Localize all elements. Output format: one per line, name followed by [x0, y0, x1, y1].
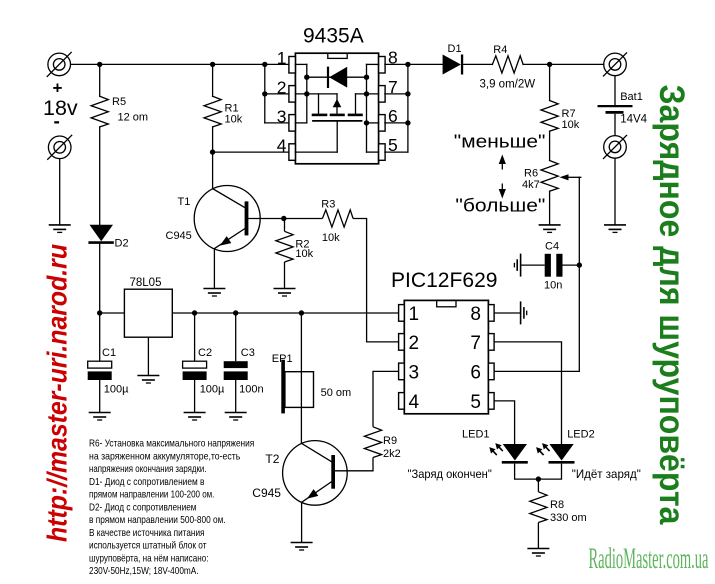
svg-text:4: 4: [409, 392, 420, 413]
wire D1 cathode to R4: [463, 63, 492, 65]
U1 mosfet substrate stub: [336, 94, 338, 114]
wire pin2 of 9435A: [265, 93, 289, 95]
svg-text:C4: C4: [545, 241, 559, 253]
resistor R1: [204, 96, 221, 127]
wire U2 pin5 to LED1: [494, 401, 514, 444]
U2 pin 4 tab: [399, 393, 405, 410]
svg-text:http://master-uri.narod.ru: http://master-uri.narod.ru: [42, 244, 73, 542]
wire C3 to ground: [235, 380, 237, 413]
svg-text:напряжения окончания зарядки.: напряжения окончания зарядки.: [89, 463, 207, 475]
U1 pin 3 tab: [289, 115, 296, 132]
wire C2 to ground: [194, 380, 196, 413]
U1 pin 4 tab: [289, 144, 296, 161]
svg-text:R9: R9: [383, 435, 397, 447]
ground: [604, 225, 626, 233]
ground: [203, 289, 225, 297]
U1 mosfet drain stub: [355, 94, 357, 114]
wire C2 top: [194, 313, 196, 361]
battery Bat1 short plate: [606, 111, 624, 114]
T2 emitter arrow: [307, 489, 318, 499]
svg-text:4k7: 4k7: [522, 179, 540, 191]
wire R2 top: [284, 219, 286, 232]
wire R4 to Bat1: [523, 63, 604, 65]
U1 internal pin7 lead: [356, 93, 379, 95]
wire T1 base node: [248, 218, 322, 220]
wire R1 top: [212, 64, 214, 96]
wire R6 wiper: [568, 176, 581, 178]
svg-text:используется штатный блок от: используется штатный блок от: [89, 540, 207, 552]
svg-text:C945: C945: [252, 486, 281, 500]
wire C4 right to node: [563, 264, 580, 266]
resistor R8: [530, 492, 547, 523]
svg-text:прямом направлении 100-200 ом.: прямом направлении 100-200 ом.: [89, 489, 214, 501]
svg-text:C945: C945: [166, 230, 192, 242]
wire Bat1 plate to terminal bottom: [614, 114, 616, 136]
svg-text:6: 6: [388, 106, 398, 126]
U1 pin numbers: [277, 48, 398, 156]
wire pin3 of 9435A: [265, 122, 289, 124]
svg-text:1: 1: [277, 48, 287, 68]
battery Bat1 terminal top: [603, 52, 627, 76]
wire EP1 through to T2 collector: [300, 313, 302, 443]
svg-text:4: 4: [277, 136, 287, 156]
svg-text:3: 3: [277, 106, 287, 126]
LED1 arrows: [492, 446, 503, 455]
svg-text:C2: C2: [198, 347, 212, 359]
resistor R7: [541, 101, 558, 132]
wire R2 to ground: [284, 262, 286, 289]
chip U2 PIC12F629 body: [404, 300, 488, 413]
resistor R4: [492, 56, 523, 73]
U2 pin 5 tab: [488, 393, 494, 410]
U2 notch: [437, 300, 456, 306]
potentiometer R6: [541, 161, 558, 192]
svg-text:"меньше": "меньше": [454, 131, 546, 151]
svg-text:230V-50Hz,15W; 18V-400mA.: 230V-50Hz,15W; 18V-400mA.: [89, 565, 199, 577]
arrow menshe (up): [501, 161, 503, 170]
U1 mosfet gate plate: [313, 120, 362, 122]
T1 base bar: [245, 201, 249, 235]
svg-text:PIC12F629: PIC12F629: [391, 269, 498, 292]
svg-text:R6: R6: [524, 168, 538, 180]
svg-text:D2: D2: [115, 238, 129, 250]
wire T1 collector: [212, 152, 214, 189]
svg-text:2: 2: [409, 333, 420, 354]
wire pin5 to bus: [385, 151, 408, 153]
svg-text:10n: 10n: [544, 280, 562, 292]
wire R8 to ground: [537, 523, 539, 549]
svg-text:LED2: LED2: [567, 429, 595, 441]
svg-text:C3: C3: [241, 347, 255, 359]
svg-text:10k: 10k: [225, 113, 243, 125]
svg-text:10k: 10k: [562, 119, 580, 131]
resistor R5: [91, 96, 108, 127]
svg-text:10k: 10k: [322, 232, 340, 244]
svg-text:RadioMaster.com.ua: RadioMaster.com.ua: [589, 542, 709, 575]
U1 internal body diode triangle: [329, 67, 347, 88]
U2 pin 8 tab: [488, 305, 494, 322]
svg-text:2k2: 2k2: [383, 448, 401, 460]
svg-text:D2- Диод с сопротивлением: D2- Диод с сопротивлением: [89, 501, 197, 513]
wire node to R8: [537, 479, 539, 492]
ground: [225, 413, 247, 421]
wire pin7 to bus: [385, 93, 408, 95]
svg-text:R6- Установка максимального на: R6- Установка максимального напряжения: [89, 438, 254, 450]
wire C1 to ground: [99, 380, 101, 413]
U1 pin 2 tab: [289, 86, 296, 103]
svg-text:-: -: [54, 112, 60, 133]
svg-text:"Идёт заряд": "Идёт заряд": [572, 467, 641, 481]
svg-text:EP1: EP1: [272, 353, 293, 365]
LED2 arrows: [539, 446, 550, 455]
wire XS2 to ground: [59, 159, 61, 225]
svg-text:Зарядное для шуруповёрта: Зарядное для шуруповёрта: [652, 85, 691, 525]
wire C3 top: [235, 313, 237, 361]
ground rotated left of C4: [514, 254, 520, 277]
terminal XS1 (+): [47, 52, 71, 76]
U1 pin 5 tab: [379, 144, 386, 161]
U1 internal junction dots: [304, 75, 369, 126]
svg-text:на заряженном аккумуляторе,то-: на заряженном аккумуляторе,то-есть: [89, 450, 241, 462]
U1 pin 1 tab: [289, 57, 296, 74]
svg-text:R3: R3: [321, 198, 335, 210]
svg-text:D1: D1: [448, 43, 462, 55]
wire D2 to node 5Vin: [99, 243, 101, 361]
svg-text:100µ: 100µ: [200, 384, 225, 396]
wire R5 top: [99, 64, 101, 96]
wire top rail +18V: [71, 63, 289, 65]
LED1: [502, 444, 528, 462]
diode D2: [88, 225, 113, 243]
svg-text:D1- Диод с сопротивлением в: D1- Диод с сопротивлением в: [89, 476, 205, 488]
svg-text:+: +: [53, 79, 63, 98]
U2 pin 2 tab: [399, 334, 405, 351]
svg-text:9435A: 9435A: [303, 25, 364, 48]
U1 mosfet channel segment 1: [313, 114, 326, 117]
wire terminal to Bat1 plate: [614, 76, 616, 105]
transistor T2: [283, 441, 348, 506]
ground: [137, 376, 159, 384]
wire LED1 cathode to node: [515, 464, 562, 480]
svg-text:"Заряд окончен": "Заряд окончен": [408, 467, 492, 481]
svg-text:T2: T2: [265, 452, 279, 466]
U2 pin 7 tab: [488, 334, 494, 351]
resistor R2: [276, 231, 293, 262]
wire 5V rail: [172, 312, 398, 314]
svg-text:50 om: 50 om: [321, 387, 352, 399]
wire C4 left to ground: [521, 264, 545, 266]
capacitor C3: [224, 361, 248, 380]
wire R7 to R6: [549, 131, 551, 160]
ground: [89, 413, 111, 421]
svg-text:R8: R8: [550, 499, 564, 511]
wire 78L05 to ground: [147, 337, 149, 375]
svg-text:В качестве источника питания: В качестве источника питания: [89, 527, 205, 539]
U1 internal body diode bar: [327, 67, 329, 88]
svg-text:7: 7: [470, 333, 481, 354]
svg-text:8: 8: [470, 304, 481, 325]
wire U2 pin7 to LED2: [494, 342, 561, 444]
U1 internal diode wire: [307, 76, 367, 78]
svg-text:100µ: 100µ: [104, 384, 129, 396]
U1 mosfet channel segment 3: [349, 114, 362, 117]
svg-text:2: 2: [277, 77, 287, 97]
ground rotated right of pin8: [521, 301, 527, 324]
LED2: [549, 444, 575, 462]
svg-text:7: 7: [388, 77, 398, 97]
T2 base bar: [331, 455, 335, 489]
wire 9435A right pins bus vertical: [407, 64, 409, 152]
svg-text:12 om: 12 om: [118, 112, 149, 124]
svg-text:100n: 100n: [239, 384, 263, 396]
wire R9 to PIC pin3: [373, 371, 399, 426]
wire node to R7: [549, 64, 551, 100]
ground: [527, 549, 549, 557]
ground: [274, 289, 296, 297]
op-amp U1 9435A body: [295, 53, 378, 164]
ground: [291, 543, 313, 551]
svg-text:5: 5: [388, 135, 398, 155]
wire T2 emitter to ground: [301, 502, 303, 542]
svg-text:6: 6: [470, 362, 481, 383]
wire pin8 to D1: [385, 63, 443, 65]
svg-text:18v: 18v: [43, 96, 78, 120]
transistor T1: [194, 186, 260, 252]
svg-text:Bat1: Bat1: [620, 91, 643, 103]
resistor R3: [322, 210, 353, 227]
svg-text:5: 5: [470, 392, 481, 413]
svg-text:8: 8: [388, 48, 398, 68]
capacitor C4: [545, 254, 563, 277]
wire battery to ground: [614, 158, 616, 225]
wire U2 pin6 to C4 node: [494, 370, 579, 372]
svg-text:1: 1: [409, 304, 420, 325]
U1 internal pin6 lead: [367, 122, 379, 124]
U1 internal pin3 lead: [295, 122, 306, 124]
wire T2 base to R9: [335, 458, 373, 471]
svg-text:78L05: 78L05: [130, 277, 162, 289]
svg-text:3,9 om/2W: 3,9 om/2W: [480, 79, 536, 91]
svg-text:C1: C1: [102, 347, 116, 359]
svg-text:10k: 10k: [295, 248, 313, 260]
wire 5V input: [100, 312, 125, 314]
U1 mosfet source stub: [318, 94, 320, 114]
capacitor C1: [88, 361, 112, 380]
U2 pin 1 tab: [399, 305, 405, 322]
wire R5 to D2: [99, 127, 101, 225]
svg-text:в прямом направлении 500-800 о: в прямом направлении 500-800 ом.: [89, 514, 226, 526]
notes text block: [89, 438, 254, 578]
U1 notch: [328, 53, 347, 58]
T1 emitter arrow: [220, 236, 232, 246]
U2 pin 3 tab: [399, 363, 405, 380]
svg-text:T1: T1: [178, 196, 191, 208]
wire U2 pin8 to supply cell: [494, 312, 520, 314]
capacitor C2: [183, 361, 207, 380]
regulator 78L05: [124, 289, 172, 337]
svg-text:R4: R4: [493, 44, 507, 56]
U1 pin 8 tab: [379, 57, 386, 74]
U1 mosfet substrate arrow: [333, 99, 342, 107]
wire R1 bottom to pin4 node: [212, 127, 214, 152]
ground: [184, 413, 206, 421]
svg-text:330 om: 330 om: [550, 512, 587, 524]
wire 9435A left pins bus: [264, 64, 266, 123]
terminal XS2 (-): [48, 135, 72, 159]
svg-text:LED1: LED1: [462, 429, 490, 441]
U1 internal pin5 lead: [367, 151, 379, 153]
U2 pin 6 tab: [488, 363, 494, 380]
ground: [49, 225, 71, 233]
arrow bolshe (down): [501, 184, 503, 193]
U1 internal pin2 lead: [295, 93, 337, 95]
wire pin6 to bus: [385, 122, 408, 124]
U1 internal pin1 lead: [295, 63, 306, 65]
U1 mosfet gate stem: [336, 121, 338, 152]
R6 wiper arrowhead: [560, 174, 569, 180]
svg-text:шуруповёрта, на нём написано:: шуруповёрта, на нём написано:: [89, 553, 209, 565]
svg-text:"больше": "больше": [455, 196, 545, 216]
U1 pin 6 tab: [379, 115, 386, 132]
svg-text:R5: R5: [112, 96, 126, 108]
buzzer EP1 bar: [281, 360, 285, 414]
U1 pin 7 tab: [379, 86, 386, 103]
U1 mosfet channel segment 2: [331, 114, 344, 117]
resistor R9: [364, 427, 381, 458]
U1 internal pin8 lead: [367, 63, 379, 65]
U1 internal pin4 lead: [295, 151, 337, 153]
wire T1 emitter to ground: [213, 249, 215, 289]
wire R3 to PIC pin2: [353, 219, 399, 342]
U2 pin numbers: [409, 304, 482, 413]
battery Bat1 terminal bottom: [603, 135, 627, 159]
U1 internal left rail: [306, 64, 308, 123]
battery Bat1 long plate: [598, 105, 633, 107]
buzzer EP1 body: [285, 372, 314, 408]
U1 internal right rail: [366, 64, 368, 152]
diode D1: [443, 55, 464, 75]
ground: [539, 225, 561, 233]
wire R6 to ground: [549, 191, 551, 225]
svg-text:3: 3: [409, 362, 420, 383]
wire wiper down to C4 node and pin6: [578, 177, 580, 371]
svg-text:14V4: 14V4: [620, 114, 647, 126]
wire pin4 of 9435A: [213, 151, 290, 153]
